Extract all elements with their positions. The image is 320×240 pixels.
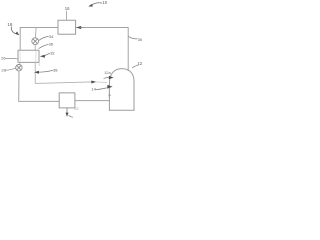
svg-text:38: 38 <box>53 67 58 72</box>
svg-text:34: 34 <box>49 34 54 39</box>
leader 34 to valve <box>39 36 48 40</box>
leader 26 to box <box>5 57 17 59</box>
faint stub below box corner <box>38 63 40 66</box>
tank bottom <box>109 109 134 111</box>
svg-text:36: 36 <box>49 42 54 47</box>
wire top horizontal left segment <box>20 27 58 29</box>
svg-text:32: 32 <box>50 50 55 55</box>
svg-text:16: 16 <box>65 6 70 11</box>
wire left vertical from top corner <box>19 28 21 51</box>
leader 30 to right vertical <box>129 37 138 39</box>
wire valve 34 to box <box>34 45 36 51</box>
svg-text:18: 18 <box>7 22 12 27</box>
wire right vertical down to tank <box>127 28 129 71</box>
arrow at end of pipe toward tank <box>91 81 96 84</box>
leader squiggle at drain <box>69 116 73 118</box>
wire evaporator to tank <box>75 100 109 102</box>
compressor box 16 (top) <box>58 20 76 34</box>
svg-text:30: 30 <box>138 37 143 42</box>
faint pipe through box <box>19 51 21 62</box>
arrow into left box right side <box>40 55 45 58</box>
wire box bottom to valve 28 <box>19 62 21 64</box>
wire second pipe below box to tank <box>35 62 91 83</box>
heat exchanger box (left) <box>18 50 39 62</box>
valve 28 (circle with X) <box>16 65 22 71</box>
leader 12 to tank <box>132 65 138 68</box>
leader 14 to tank wall <box>96 88 107 90</box>
faint mark on tank wall <box>109 94 112 97</box>
wire valve 28 down and to evaporator box <box>19 71 60 102</box>
svg-text:14: 14 <box>91 87 96 92</box>
valve 34 (circle with X) <box>32 38 39 45</box>
wire top horizontal right segment <box>76 27 129 29</box>
svg-text:12a: 12a <box>104 70 111 75</box>
svg-text:10: 10 <box>102 0 107 5</box>
evaporator box 20 (bottom) <box>59 93 75 108</box>
faint pipe through box <box>35 51 37 62</box>
svg-text:22: 22 <box>74 107 78 111</box>
tank 12 (dome vessel) <box>109 69 134 111</box>
leader 36 <box>39 45 48 49</box>
arrow into compressor right side <box>76 26 81 29</box>
svg-text:26: 26 <box>1 55 6 60</box>
arrow 12a to tank shoulder <box>104 77 109 78</box>
leader 32 <box>45 53 50 55</box>
leader 16 to box top <box>66 11 68 20</box>
leader 28 to valve <box>6 68 16 70</box>
wire vertical to valve 34 <box>34 28 37 38</box>
arrow 38 pointing at pipe <box>34 71 39 74</box>
svg-text:12: 12 <box>137 61 142 66</box>
drain stub with down arrow <box>66 108 68 113</box>
leader 38 <box>39 70 53 72</box>
arrow 14 at tank wall <box>107 85 112 89</box>
